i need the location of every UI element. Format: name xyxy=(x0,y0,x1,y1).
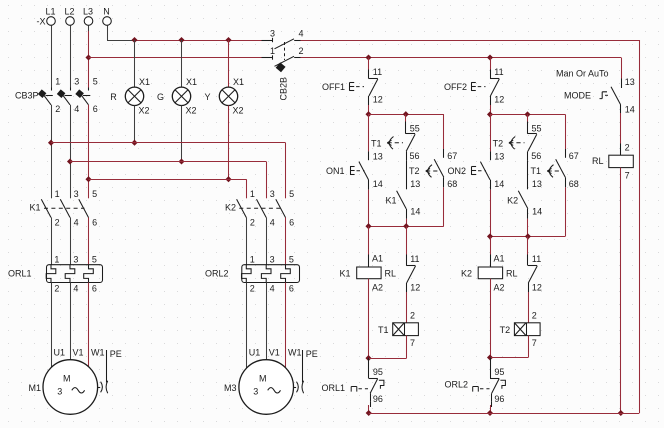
svg-text:55: 55 xyxy=(532,124,542,134)
contactor coil K2 xyxy=(461,254,518,293)
svg-text:T2: T2 xyxy=(409,166,420,176)
wire T1 contact to bottom line xyxy=(528,187,566,236)
svg-text:95: 95 xyxy=(494,367,504,377)
timer contact T1 (NC timed 55-56) xyxy=(371,122,420,161)
svg-text:7: 7 xyxy=(532,338,537,348)
svg-text:6: 6 xyxy=(93,104,98,114)
svg-text:95: 95 xyxy=(373,367,383,377)
node T1 contact tap xyxy=(403,111,409,117)
wire OFF1 to node xyxy=(368,105,370,114)
svg-text:6: 6 xyxy=(289,284,294,294)
node N at lamp G xyxy=(178,37,184,43)
wire ORL2 aux to rail xyxy=(491,402,492,413)
svg-text:2: 2 xyxy=(55,104,60,114)
wire T2 timed branch xyxy=(443,114,445,149)
svg-text:A1: A1 xyxy=(372,254,383,264)
svg-text:3: 3 xyxy=(73,254,78,264)
svg-text:2: 2 xyxy=(625,142,630,152)
interlock contact RL (NC 11-12) xyxy=(406,254,420,292)
wire K2 pole2 to ORL2 xyxy=(266,218,268,265)
wire K2 pole3 to ORL2 xyxy=(285,218,287,265)
wire interlock to T1 coil xyxy=(406,292,408,323)
wire K1 coil to node xyxy=(368,279,370,358)
wire interlock to T2 coil xyxy=(528,292,530,323)
svg-text:V1: V1 xyxy=(269,348,280,358)
svg-text:X1: X1 xyxy=(139,77,150,87)
svg-text:7: 7 xyxy=(410,338,415,348)
node T2 contact tap xyxy=(524,111,530,117)
terminal L2 xyxy=(64,7,74,26)
node rail at K1 branch xyxy=(366,410,372,416)
wire L1 below CB3P xyxy=(51,105,53,199)
svg-text:MODE: MODE xyxy=(564,90,591,100)
wire K2 branch top horizontal xyxy=(490,114,565,116)
svg-text:6: 6 xyxy=(92,284,97,294)
svg-text:12: 12 xyxy=(410,282,420,292)
svg-text:1: 1 xyxy=(55,189,60,199)
svg-text:13: 13 xyxy=(625,77,635,87)
node below K1 coil xyxy=(365,355,371,361)
wire to MODE contact xyxy=(621,78,623,88)
interlock contact RL (NC 11-12) xyxy=(528,254,542,292)
svg-text:K2: K2 xyxy=(225,202,236,212)
wire ORL1 aux to rail xyxy=(369,402,371,413)
wire L3 terminal to junction xyxy=(88,26,90,88)
wire L2 below CB3P xyxy=(70,105,72,199)
wire branch to interlock xyxy=(406,226,408,254)
svg-text:14: 14 xyxy=(494,179,504,189)
svg-text:U1: U1 xyxy=(54,348,66,358)
svg-text:-X: -X xyxy=(37,17,46,27)
node phase at OFF2 xyxy=(487,54,493,60)
svg-text:RL: RL xyxy=(592,156,604,166)
node K1 branch top xyxy=(365,111,371,117)
wire K2 aux to bottom node xyxy=(527,219,529,237)
svg-text:K2: K2 xyxy=(507,195,518,205)
svg-text:2: 2 xyxy=(299,46,304,56)
wire to ORL2 aux xyxy=(490,358,492,369)
svg-text:68: 68 xyxy=(569,179,579,189)
svg-text:2: 2 xyxy=(54,284,59,294)
contactor K2 main contacts xyxy=(225,189,294,228)
svg-text:K1: K1 xyxy=(385,195,396,205)
svg-text:K1: K1 xyxy=(29,202,40,212)
overload contact ORL1 (NC 95-96) xyxy=(321,367,383,404)
wire T2 coil return xyxy=(490,336,529,358)
svg-text:A2: A2 xyxy=(372,282,383,292)
svg-text:2: 2 xyxy=(250,284,255,294)
push button OFF2 (NC 11-12) xyxy=(444,67,504,105)
wire K2 coil to node xyxy=(490,279,492,358)
wire T2-56 to K2 aux xyxy=(527,160,529,180)
wire to K1 coil xyxy=(368,226,370,267)
terminal L3 xyxy=(83,7,93,26)
svg-text:V1: V1 xyxy=(73,348,84,358)
wire N line lamps to CB2B pin3 xyxy=(135,40,262,42)
svg-text:L2: L2 xyxy=(64,7,74,17)
auxiliary contact K1 (NO 13-14) xyxy=(385,179,420,219)
node lamp Y line C xyxy=(225,176,231,182)
svg-text:1: 1 xyxy=(54,254,59,264)
svg-text:A2: A2 xyxy=(494,282,505,292)
svg-text:Man Or AuTo: Man Or AuTo xyxy=(556,69,609,79)
timer contact T2 (NC timed 55-56) xyxy=(493,122,542,161)
wire bottom neutral rail xyxy=(369,413,640,415)
contactor K1 main contacts xyxy=(29,189,97,228)
wire L3 phase to CB2B pin1 xyxy=(89,57,262,59)
wire right rail N xyxy=(639,40,641,413)
svg-text:1: 1 xyxy=(250,254,255,264)
svg-text:68: 68 xyxy=(447,179,457,189)
terminal N xyxy=(103,7,112,26)
svg-text:96: 96 xyxy=(494,394,504,404)
svg-text:OFF2: OFF2 xyxy=(444,82,467,92)
svg-text:55: 55 xyxy=(410,124,420,134)
wire lamp R to line A xyxy=(134,106,136,143)
svg-text:R: R xyxy=(110,92,117,102)
svg-text:ON2: ON2 xyxy=(447,166,466,176)
svg-text:11: 11 xyxy=(532,254,541,264)
push button ON1 (NO 13-14) xyxy=(326,151,383,189)
wire N horizontal to lamp R tap xyxy=(107,40,135,42)
svg-text:14: 14 xyxy=(625,105,635,115)
svg-text:L1: L1 xyxy=(45,7,55,17)
svg-text:ORL1: ORL1 xyxy=(321,383,345,393)
svg-text:5: 5 xyxy=(93,77,98,87)
timer coil T2 xyxy=(500,310,540,348)
lamp Y with wire xyxy=(204,40,244,116)
svg-text:3: 3 xyxy=(253,387,258,397)
svg-text:ORL1: ORL1 xyxy=(8,268,32,278)
wire MODE to RL coil xyxy=(620,113,622,155)
label Man Or AuTo xyxy=(556,69,609,79)
auxiliary contact K2 (NO 13-14) xyxy=(507,179,542,219)
timer contact T2 (NO timed 67-68) xyxy=(409,149,457,189)
circuit breaker CB2B xyxy=(262,29,304,101)
wire CB2B pin2 to control rail xyxy=(301,57,622,59)
label -X xyxy=(37,17,46,27)
svg-text:X1: X1 xyxy=(186,77,197,87)
svg-text:12: 12 xyxy=(494,95,504,105)
svg-text:2: 2 xyxy=(532,310,537,320)
motor M3 xyxy=(224,283,318,415)
svg-text:3: 3 xyxy=(74,189,79,199)
svg-text:A1: A1 xyxy=(494,254,505,264)
svg-text:M3: M3 xyxy=(224,383,237,393)
svg-text:14: 14 xyxy=(410,207,420,217)
svg-text:13: 13 xyxy=(532,179,542,189)
wire T2 contact to bottom line xyxy=(406,187,444,226)
timer coil T1 xyxy=(378,310,418,348)
lamp G with wire xyxy=(157,40,197,116)
svg-text:ON1: ON1 xyxy=(326,166,345,176)
wire bottom line of K1 cell xyxy=(369,226,407,228)
wire control rail corner down to MODE xyxy=(621,58,623,79)
svg-text:12: 12 xyxy=(532,282,542,292)
svg-text:ORL2: ORL2 xyxy=(444,379,468,389)
svg-text:3: 3 xyxy=(74,77,79,87)
svg-text:T2: T2 xyxy=(500,325,511,335)
node phase at OFF1 xyxy=(365,54,371,60)
svg-text:2: 2 xyxy=(410,310,415,320)
svg-text:12: 12 xyxy=(373,95,383,105)
wire L2 terminal to CB3P pin3 xyxy=(70,26,72,88)
wire to ORL1 aux xyxy=(368,358,370,368)
svg-text:7: 7 xyxy=(625,170,630,180)
svg-text:L3: L3 xyxy=(83,7,93,17)
node line A tap xyxy=(48,140,54,146)
timer contact T1 (NO timed 67-68) xyxy=(530,149,578,189)
wire K1 aux to bottom node xyxy=(406,219,408,226)
node K2 cell bottom mid xyxy=(525,233,531,239)
svg-text:4: 4 xyxy=(270,217,275,227)
svg-text:PE: PE xyxy=(110,349,122,359)
svg-text:X1: X1 xyxy=(233,77,244,87)
node lamp R line A xyxy=(131,140,137,146)
svg-text:CB2B: CB2B xyxy=(279,77,289,101)
svg-text:X2: X2 xyxy=(186,106,197,116)
svg-text:4: 4 xyxy=(73,284,78,294)
svg-text:56: 56 xyxy=(410,151,420,161)
wire K1 pole1 to ORL1 xyxy=(51,218,53,265)
svg-text:W1: W1 xyxy=(288,348,302,358)
svg-text:5: 5 xyxy=(289,189,294,199)
wire OFF2 feed xyxy=(490,58,492,70)
node N at lamp R xyxy=(131,37,137,43)
node below K2 coil xyxy=(487,354,493,360)
node K1 cell bottom left xyxy=(365,223,371,229)
wire line B to K2 pin3 xyxy=(70,162,267,199)
wire T1 contact stub xyxy=(405,114,407,121)
wire branch top horizontal xyxy=(369,114,444,116)
wire K2 pole1 to ORL2 xyxy=(246,218,248,265)
svg-text:67: 67 xyxy=(569,151,579,161)
overload relay ORL1 xyxy=(8,254,103,293)
motor M1 xyxy=(28,283,121,415)
wire line A to K2 pin5 xyxy=(51,143,286,199)
wire ON1 to bottom node xyxy=(368,190,370,227)
wire lamp G to line B xyxy=(181,106,183,162)
svg-text:4: 4 xyxy=(74,104,79,114)
node rail at RL branch xyxy=(618,410,624,416)
svg-text:RL: RL xyxy=(506,268,518,278)
svg-text:1: 1 xyxy=(250,189,255,199)
svg-text:N: N xyxy=(103,7,110,17)
svg-text:4: 4 xyxy=(74,217,79,227)
wire to ON1 xyxy=(368,114,370,151)
svg-text:M: M xyxy=(63,374,71,384)
node line B tap xyxy=(67,158,73,164)
node rail at K2 branch xyxy=(487,410,493,416)
svg-text:1: 1 xyxy=(55,77,60,87)
svg-text:5: 5 xyxy=(289,254,294,264)
contactor coil K1 xyxy=(339,254,396,293)
overload contact ORL2 (NC 95-96) xyxy=(444,367,505,404)
wire RL coil to rail xyxy=(620,168,622,413)
svg-text:11: 11 xyxy=(410,254,419,264)
svg-text:13: 13 xyxy=(410,179,420,189)
svg-text:67: 67 xyxy=(447,151,457,161)
svg-text:3: 3 xyxy=(270,29,275,39)
svg-text:T1: T1 xyxy=(378,325,389,335)
node K2 cell bottom left xyxy=(487,233,493,239)
wire CB2B pin4 to right rail corner xyxy=(301,40,640,42)
wire L1 terminal to CB3P pin1 xyxy=(51,26,53,88)
svg-text:M1: M1 xyxy=(28,383,41,393)
svg-text:4: 4 xyxy=(270,284,275,294)
svg-text:T2: T2 xyxy=(493,138,504,148)
svg-text:K2: K2 xyxy=(461,268,472,278)
svg-text:96: 96 xyxy=(373,394,383,404)
wire T1 coil return xyxy=(369,336,407,359)
node L3 tap xyxy=(85,54,91,60)
wire bottom line of K2 cell xyxy=(490,236,528,238)
wire OFF1 feed xyxy=(368,58,370,70)
svg-text:14: 14 xyxy=(373,179,383,189)
wire to ON2 xyxy=(490,114,492,151)
relay coil RL xyxy=(592,142,633,180)
node lamp G line B xyxy=(178,158,184,164)
svg-text:Y: Y xyxy=(204,92,210,102)
svg-text:T1: T1 xyxy=(530,166,541,176)
svg-text:11: 11 xyxy=(494,67,503,77)
svg-text:CB3P: CB3P xyxy=(15,91,39,101)
wire K1 pole2 to ORL1 xyxy=(70,218,72,265)
terminal L1 xyxy=(45,7,55,26)
wire K1 pole3 to ORL1 xyxy=(88,218,90,265)
wire L3 below CB3P xyxy=(88,105,90,199)
svg-text:13: 13 xyxy=(494,152,504,162)
svg-text:5: 5 xyxy=(92,189,97,199)
wire OFF2 to node xyxy=(490,105,492,114)
node line C tap xyxy=(85,176,91,182)
overload relay ORL2 xyxy=(205,254,300,293)
push button ON2 (NO 13-14) xyxy=(447,151,504,189)
svg-text:3: 3 xyxy=(270,254,275,264)
wire branch to interlock 2 xyxy=(527,236,529,254)
svg-text:M: M xyxy=(259,374,267,384)
svg-text:5: 5 xyxy=(92,254,97,264)
node K1 cell bottom mid xyxy=(403,223,409,229)
svg-text:13: 13 xyxy=(373,152,383,162)
circuit breaker CB3P xyxy=(15,77,98,115)
svg-text:X2: X2 xyxy=(139,106,150,116)
wire T2 contact stub xyxy=(527,114,529,121)
wire line C to K2 pin1 xyxy=(89,179,247,198)
wire T1 timed branch xyxy=(565,114,567,149)
svg-text:W1: W1 xyxy=(91,348,105,358)
svg-text:RL: RL xyxy=(385,268,397,278)
svg-text:3: 3 xyxy=(57,387,62,397)
selector switch MODE (NO 13-14) xyxy=(564,77,635,115)
svg-text:K1: K1 xyxy=(339,268,350,278)
node K2 branch top xyxy=(487,111,493,117)
wire lamp Y to line C xyxy=(228,106,230,180)
svg-text:U1: U1 xyxy=(249,348,261,358)
svg-text:6: 6 xyxy=(289,217,294,227)
svg-text:6: 6 xyxy=(92,217,97,227)
wire to K2 coil xyxy=(490,236,492,267)
svg-text:1: 1 xyxy=(270,46,275,56)
svg-text:2: 2 xyxy=(250,217,255,227)
lamp R with wire xyxy=(110,40,150,116)
svg-text:2: 2 xyxy=(55,217,60,227)
svg-text:PE: PE xyxy=(306,349,318,359)
wire ON2 to bottom node xyxy=(490,190,492,237)
svg-text:T1: T1 xyxy=(371,138,382,148)
wire N terminal down xyxy=(107,26,109,41)
svg-text:11: 11 xyxy=(373,67,382,77)
svg-text:56: 56 xyxy=(531,151,541,161)
svg-text:G: G xyxy=(157,92,164,102)
svg-text:14: 14 xyxy=(532,207,542,217)
svg-text:X2: X2 xyxy=(233,106,244,116)
wire T1-56 to K1 aux xyxy=(406,160,408,180)
svg-text:ORL2: ORL2 xyxy=(205,268,229,278)
node N at lamp Y xyxy=(225,37,231,43)
push button OFF1 (NC 11-12) xyxy=(322,67,383,105)
svg-text:3: 3 xyxy=(270,189,275,199)
svg-text:OFF1: OFF1 xyxy=(322,82,345,92)
svg-text:4: 4 xyxy=(299,29,304,39)
